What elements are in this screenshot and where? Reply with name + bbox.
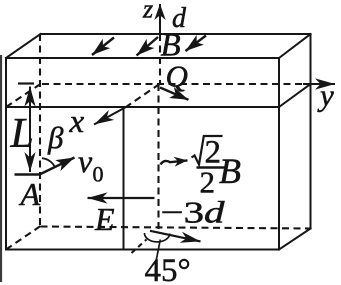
- svg-text:B: B: [219, 151, 241, 191]
- svg-text:v: v: [78, 143, 93, 179]
- svg-text:−3d: −3d: [161, 195, 226, 230]
- svg-text:β: β: [47, 120, 64, 155]
- svg-text:z: z: [142, 0, 153, 24]
- svg-text:2: 2: [200, 165, 216, 200]
- svg-text:L: L: [10, 111, 34, 157]
- svg-text:A: A: [19, 176, 41, 212]
- svg-text:0: 0: [93, 162, 104, 187]
- svg-text:E: E: [94, 201, 115, 237]
- svg-text:x: x: [69, 104, 85, 140]
- svg-text:45°: 45°: [145, 253, 191, 285]
- svg-text:Q: Q: [166, 59, 188, 94]
- svg-text:y: y: [317, 78, 334, 113]
